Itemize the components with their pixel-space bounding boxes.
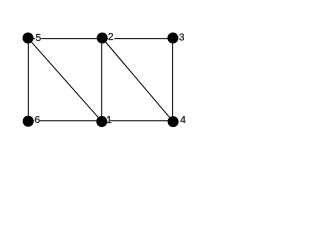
label 5 xyxy=(35,33,41,45)
label 1 xyxy=(106,115,112,126)
node 4 xyxy=(168,116,179,127)
node 3 xyxy=(167,33,178,44)
svg-text:3: 3 xyxy=(179,32,185,43)
wire edge 2-4 diagonal xyxy=(102,38,173,122)
svg-text:6: 6 xyxy=(35,115,41,126)
wire edge 6-1 xyxy=(28,120,102,122)
node 1 xyxy=(96,116,107,127)
wire edge 5-2 xyxy=(28,38,102,40)
node 5 xyxy=(23,33,34,44)
svg-text:2: 2 xyxy=(108,32,114,43)
wire edge 5-1 diagonal xyxy=(28,38,102,122)
label 2 xyxy=(108,32,114,43)
label 4 xyxy=(180,115,186,126)
node 6 xyxy=(23,116,34,127)
svg-text:1: 1 xyxy=(106,115,112,126)
wire edge 5-6 xyxy=(27,38,29,121)
wire edge 2-3 xyxy=(102,38,173,40)
wire edge 1-4 xyxy=(102,120,173,122)
wire edge 3-4 xyxy=(172,38,174,122)
svg-text:5: 5 xyxy=(36,33,42,44)
label 3 xyxy=(178,32,185,43)
svg-text:4: 4 xyxy=(180,115,186,126)
label 6 xyxy=(34,115,40,126)
node 2 xyxy=(97,33,108,44)
wire edge 2-1 xyxy=(101,38,103,121)
